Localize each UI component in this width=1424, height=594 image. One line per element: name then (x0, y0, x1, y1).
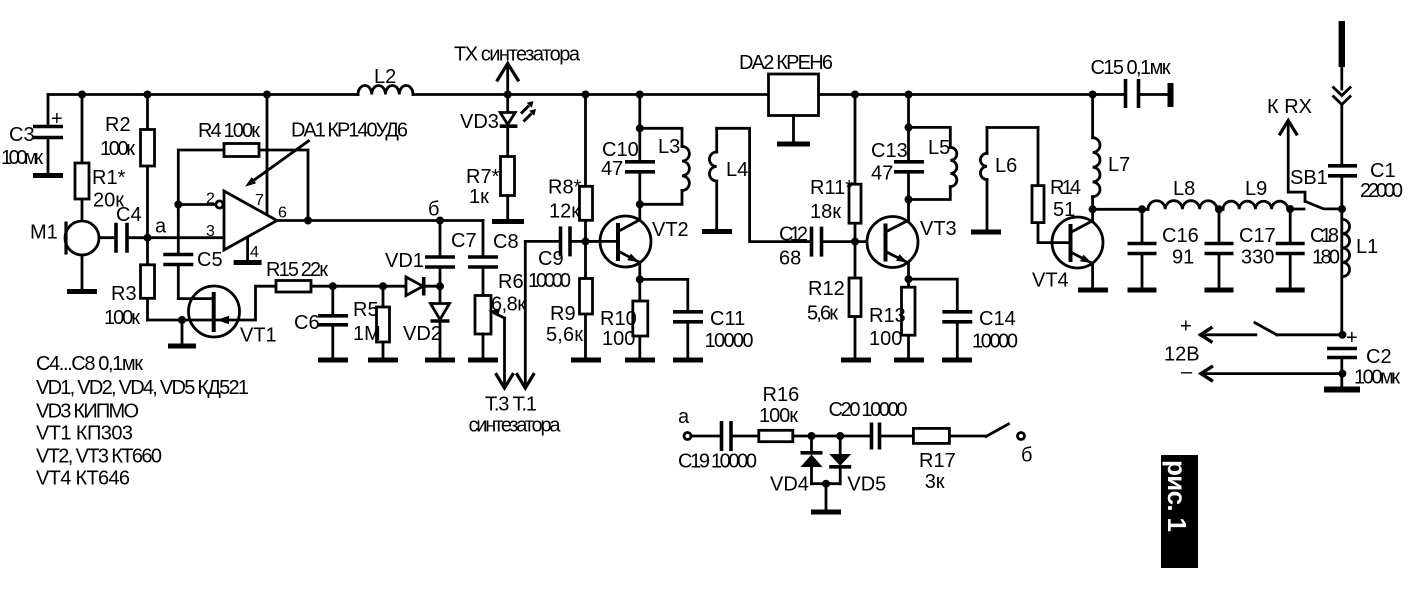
capacitor C20 (872, 423, 880, 450)
switch to б (986, 424, 1009, 437)
ground (R10) (625, 358, 655, 363)
node terminal а (684, 433, 691, 440)
svg-text:C20 10000: C20 10000 (829, 399, 908, 421)
resistor R11* (854, 95, 857, 242)
svg-text:R1*: R1* (92, 167, 126, 189)
figure label рис. 1 (1161, 455, 1198, 568)
ground (R7) (492, 219, 524, 224)
svg-text:68: 68 (779, 248, 801, 270)
svg-text:ТХ синтезатора: ТХ синтезатора (454, 44, 581, 66)
regulator DA2 КРЕН6 (769, 74, 819, 116)
ground (R13) (894, 358, 924, 363)
svg-text:C15 0,1мк: C15 0,1мк (1091, 57, 1171, 79)
capacitor C11 (640, 279, 688, 310)
wire R17 to switch (949, 435, 986, 438)
svg-text:DA1 КР140УД6: DA1 КР140УД6 (291, 120, 408, 142)
inductor L3 (640, 128, 682, 146)
ground (C3) (33, 173, 63, 178)
node rail/VT2 collector junction (636, 91, 644, 99)
svg-text:L2: L2 (374, 66, 396, 88)
capacitor C16 (1141, 209, 1144, 242)
transistor VT3 (КТ660) (867, 217, 918, 268)
capacitor C7 (439, 221, 442, 256)
ground (R5) (368, 358, 398, 363)
svg-text:C3: C3 (9, 124, 35, 146)
svg-text:VD1, VD2, VD4, VD5 КД521: VD1, VD2, VD4, VD5 КД521 (36, 377, 249, 399)
node rail/L7 junction (1089, 91, 1097, 99)
node tank top junction (905, 123, 913, 131)
svg-text:VT2: VT2 (652, 219, 689, 241)
wire pin 2 input (178, 203, 215, 206)
svg-text:L1: L1 (1356, 236, 1378, 258)
svg-text:L7: L7 (1108, 154, 1130, 176)
wire C6 lead (331, 286, 334, 314)
svg-text:VD3: VD3 (460, 111, 499, 133)
svg-text:VT1: VT1 (240, 325, 277, 347)
switch SB1 (1290, 208, 1304, 211)
transistor VT4 (КТ646) (1052, 217, 1103, 268)
node VD1/VD2/C7 junction (436, 282, 444, 290)
node VT2 base junction (582, 237, 590, 245)
svg-text:синтезатора: синтезатора (469, 415, 562, 437)
capacitor C10 (collector tank) (638, 95, 641, 161)
resistor R7* (501, 157, 515, 196)
node L7/VT4 collector junction (1089, 205, 1097, 213)
ground (C16) (1128, 288, 1157, 293)
ground (VT4) (1078, 288, 1108, 293)
capacitor C5 (177, 205, 180, 253)
svg-text:1M: 1M (353, 323, 381, 345)
capacitor C19 (691, 435, 720, 438)
svg-text:180: 180 (1312, 247, 1340, 269)
ground (L4) (702, 229, 732, 234)
svg-text:VD5: VD5 (847, 474, 886, 496)
wire M1 to ground (81, 255, 84, 289)
node R5 junction (379, 282, 387, 290)
svg-text:22000: 22000 (1360, 180, 1403, 202)
resistor R9 (584, 241, 587, 357)
capacitor C15 (1126, 79, 1139, 108)
svg-text:R7*: R7* (466, 166, 500, 188)
node rail/R1 junction (78, 91, 86, 99)
diode VD3 (LED КИПМО) (500, 113, 515, 125)
capacitor C14 (909, 279, 958, 310)
ground (R12) (841, 358, 871, 363)
wire pin 7 supply (266, 95, 269, 215)
svg-text:R4 100к: R4 100к (198, 120, 260, 142)
node TX синтезатора arrow (506, 65, 509, 95)
transistor VT1 (JFET КП303) (189, 286, 240, 337)
svg-text:б: б (428, 199, 439, 221)
node C18/L9 junction (1286, 205, 1294, 213)
svg-text:L3: L3 (658, 136, 680, 158)
svg-text:б: б (1021, 445, 1032, 467)
svg-text:6: 6 (278, 205, 287, 222)
inductor L8 (1148, 201, 1217, 210)
svg-text:M1: M1 (30, 222, 58, 244)
inductor L7 (1091, 95, 1094, 138)
node antenna jack terminal (1168, 83, 1174, 107)
svg-text:330: 330 (1241, 247, 1274, 269)
diode VD4 (810, 436, 813, 452)
node supply plus junction (1338, 331, 1346, 339)
svg-text:VT3: VT3 (920, 218, 957, 240)
svg-text:R11*: R11* (810, 177, 853, 199)
svg-text:VD3 КИПМО: VD3 КИПМО (36, 401, 139, 423)
svg-text:C11: C11 (710, 308, 745, 330)
svg-text:R9: R9 (550, 303, 576, 325)
svg-text:C14: C14 (979, 308, 1016, 330)
resistor R3 (146, 238, 149, 320)
capacitor C13 (collector tank) (907, 95, 910, 161)
wire VD4/VD5 common to ground (812, 482, 841, 485)
wire 12V minus line (1201, 372, 1342, 375)
svg-text:C5: C5 (197, 249, 223, 271)
transistor VT2 (КТ660) (600, 216, 651, 267)
svg-text:C9: C9 (538, 248, 564, 270)
microphone M1 (65, 221, 99, 255)
svg-text:R15 22к: R15 22к (266, 259, 328, 281)
svg-text:Т.3 Т.1: Т.3 Т.1 (485, 394, 537, 416)
svg-text:L6: L6 (995, 155, 1017, 177)
node tank bottom junction (636, 200, 644, 208)
ground (DA1 pin4) (234, 260, 262, 265)
svg-text:L9: L9 (1245, 178, 1267, 200)
svg-text:DA2 КРЕН6: DA2 КРЕН6 (739, 52, 833, 74)
node VD5 junction (836, 432, 844, 440)
resistor R2 (146, 95, 149, 238)
node tank top junction (636, 124, 644, 132)
wire between L8 and L9 (1217, 208, 1223, 211)
ground (VD4 VD5) (811, 510, 841, 515)
node VT3 base junction (851, 238, 859, 246)
diode VD2 (439, 286, 442, 303)
ground (R9) (571, 358, 601, 363)
antenna (1339, 21, 1345, 67)
inductor L1 (1342, 219, 1349, 276)
ground (C2) (1324, 387, 1360, 393)
resistor R13 (907, 279, 910, 357)
svg-text:C19 10000: C19 10000 (678, 451, 757, 473)
ground (M1) (67, 289, 97, 294)
wire VT4 collector node to filter (1093, 208, 1148, 211)
capacitor C17 (1218, 209, 1221, 242)
diode VD5 (839, 436, 842, 454)
ground (VT1) (168, 344, 196, 349)
svg-text:100: 100 (602, 328, 635, 350)
wire L4 top to C12 (717, 128, 810, 241)
resistor R5 (382, 286, 385, 357)
node T.3 arrow (496, 375, 512, 389)
svg-text:VD1: VD1 (385, 250, 424, 272)
svg-text:VT4: VT4 (1032, 270, 1069, 292)
svg-text:C6: C6 (294, 312, 320, 334)
node rail/R2 junction (144, 91, 152, 99)
svg-text:VD4: VD4 (770, 474, 809, 496)
svg-text:7: 7 (255, 192, 264, 209)
svg-text:VT2, VT3 КТ660: VT2, VT3 КТ660 (36, 446, 162, 468)
svg-text:C16: C16 (1162, 225, 1199, 247)
svg-text:C13: C13 (871, 140, 908, 162)
resistor R10 (638, 279, 641, 357)
svg-text:L5: L5 (928, 137, 950, 159)
svg-text:5,6к: 5,6к (546, 324, 583, 346)
diode VD1 (406, 277, 423, 296)
svg-text:R10: R10 (600, 308, 637, 330)
svg-text:R6: R6 (498, 271, 524, 293)
svg-text:L4: L4 (726, 159, 748, 181)
node rail/DA1 pin7 junction (263, 91, 271, 99)
svg-text:100к: 100к (100, 138, 135, 160)
node rail/R11 junction (851, 91, 859, 99)
wire 12V plus line with switch (1201, 333, 1256, 336)
svg-text:3к: 3к (925, 471, 945, 493)
svg-text:К RX: К RX (1267, 96, 1312, 118)
capacitor C4 (99, 236, 114, 239)
node supply minus junction (1338, 370, 1346, 378)
svg-text:а: а (678, 406, 690, 428)
wire top supply rail right segment (819, 93, 1125, 96)
capacitor C1 (1328, 166, 1357, 176)
svg-text:3: 3 (206, 223, 215, 240)
svg-text:10000: 10000 (528, 270, 571, 292)
node T.1 arrow and wire (524, 241, 527, 385)
svg-text:R14: R14 (1050, 177, 1081, 199)
svg-text:VT1 КП303: VT1 КП303 (36, 423, 133, 445)
resistor R4 (224, 144, 259, 157)
svg-text:18к: 18к (810, 201, 841, 223)
node C17 junction (1215, 205, 1223, 213)
svg-text:47: 47 (871, 163, 893, 185)
svg-text:R12: R12 (808, 278, 845, 300)
node VT3 emitter junction (905, 275, 913, 283)
wire feedback loop (pin2 to R4 to output) (178, 150, 308, 221)
svg-text:12к: 12к (549, 201, 580, 223)
svg-text:R3: R3 (111, 283, 137, 305)
ground (R6) (468, 358, 498, 363)
resistor R15 (276, 281, 311, 293)
resistor R1* (81, 95, 84, 222)
node VD4/VD5 common junction (822, 480, 830, 488)
wire top supply rail left segment (48, 93, 358, 96)
svg-text:+: + (51, 108, 63, 130)
svg-text:R17: R17 (919, 450, 956, 472)
svg-text:100к: 100к (104, 307, 140, 329)
svg-text:100мк: 100мк (1354, 367, 1400, 389)
svg-text:C4...C8 0,1мк: C4...C8 0,1мк (36, 353, 143, 375)
capacitor C3 (electrolytic) (47, 95, 50, 124)
inductor L5 (909, 127, 951, 147)
op-amp DA1 КР140УД6 (224, 191, 277, 250)
node rail/VD3 junction (504, 91, 512, 99)
svg-text:SB1: SB1 (1290, 167, 1328, 189)
svg-text:R5: R5 (353, 299, 379, 321)
wire DA1 label arrow (250, 141, 309, 183)
ground (C17) (1205, 288, 1234, 293)
node rail/VT3 collector junction (905, 91, 913, 99)
capacitor C9 (525, 240, 558, 243)
node C16 junction (1138, 205, 1146, 213)
ground (C6) (318, 358, 348, 363)
node tank bottom junction (905, 196, 913, 204)
ground (L6) (971, 230, 1001, 235)
svg-text:5,6к: 5,6к (807, 303, 838, 325)
svg-text:1к: 1к (469, 186, 489, 208)
svg-text:+: + (1346, 327, 1358, 349)
inductor L6 (986, 128, 989, 154)
wire top supply rail middle segment (413, 93, 769, 96)
svg-text:+: + (1180, 316, 1192, 338)
node C1/L1/SB1 junction (1338, 205, 1346, 213)
svg-text:R16: R16 (763, 384, 800, 406)
capacitor C18 (1289, 209, 1292, 242)
inductor L4 (715, 128, 718, 152)
node C6 junction (329, 282, 337, 290)
svg-text:R13: R13 (869, 305, 906, 327)
node K RX arrow (1288, 122, 1305, 202)
wire DA1 output to node б (277, 219, 483, 222)
resistor R14 (1038, 128, 1053, 243)
inductor L9 (1223, 201, 1288, 209)
resistor R16 (759, 430, 793, 441)
node terminal б (1018, 433, 1025, 440)
svg-text:10000: 10000 (972, 331, 1018, 353)
node VT2 emitter junction (636, 275, 644, 283)
svg-text:R8*: R8* (548, 177, 582, 199)
ground (C18) (1276, 288, 1305, 293)
resistor R8* (584, 95, 587, 242)
svg-text:47: 47 (601, 158, 623, 180)
svg-text:C8: C8 (493, 231, 519, 253)
svg-text:C7: C7 (451, 230, 477, 252)
node rail/R8 junction (582, 91, 590, 99)
svg-text:R2: R2 (105, 114, 131, 136)
node feedback/output junction (304, 217, 312, 225)
svg-text:рис. 1: рис. 1 (1162, 460, 1192, 532)
svg-text:C18: C18 (1310, 225, 1339, 247)
inductor L2 (series in rail) (358, 86, 413, 95)
wire VT1 source to ground (181, 320, 184, 344)
svg-text:–: – (1181, 361, 1193, 383)
wire pin 4 (246, 238, 249, 261)
svg-text:100к: 100к (759, 405, 798, 427)
resistor R6 (preset) (475, 296, 491, 335)
capacitor C12 (812, 227, 822, 257)
wire R6 wiper (495, 314, 505, 319)
svg-text:C2: C2 (1366, 346, 1392, 368)
wire to ground (825, 484, 828, 510)
svg-text:100: 100 (869, 328, 902, 350)
svg-text:L8: L8 (1173, 178, 1195, 200)
ground (C14) (942, 358, 972, 363)
node a (144, 234, 152, 242)
svg-text:C1: C1 (1370, 160, 1396, 182)
svg-text:C17: C17 (1239, 225, 1276, 247)
capacitor C8 (482, 221, 485, 256)
resistor R12 (854, 242, 857, 358)
node VD4 junction (808, 432, 816, 440)
svg-text:C12: C12 (779, 224, 808, 246)
svg-text:91: 91 (1172, 247, 1194, 269)
ground (DA2) (777, 142, 810, 147)
ground (C11) (673, 358, 703, 363)
svg-text:10000: 10000 (705, 330, 754, 352)
svg-text:VT4 КТ646: VT4 КТ646 (36, 468, 130, 490)
wire L6 top to R14 (987, 126, 1038, 129)
svg-text:100мк: 100мк (1, 147, 43, 169)
resistor R17 (913, 428, 949, 443)
svg-text:C4: C4 (116, 204, 142, 226)
wire R15 to VD1 (311, 285, 406, 288)
wire R16 to C20 (793, 435, 870, 438)
ground (VD2) (425, 358, 455, 363)
node VT1 source/ground junction (178, 316, 186, 324)
svg-text:4: 4 (250, 244, 259, 261)
node б (436, 217, 444, 225)
svg-text:а: а (155, 216, 167, 238)
svg-text:VD2: VD2 (403, 323, 442, 345)
